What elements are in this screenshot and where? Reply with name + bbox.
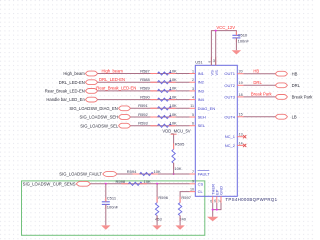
svg-text:C511: C511 xyxy=(107,196,117,201)
capacitor C510 100nF xyxy=(232,32,249,44)
svg-text:14: 14 xyxy=(239,141,243,145)
svg-text:VCC_12V: VCC_12V xyxy=(216,25,235,30)
pin THER bottom xyxy=(209,184,215,203)
op-amp U51 (load switch IC body) xyxy=(195,59,277,202)
svg-text:Handle bar_LED_En: Handle bar_LED_En xyxy=(46,97,85,102)
svg-text:DIAG_EN: DIAG_EN xyxy=(198,106,216,111)
svg-text:Rear_Break_LED-EN: Rear_Break_LED-EN xyxy=(96,86,136,91)
ground below IC xyxy=(207,217,218,221)
svg-text:R593: R593 xyxy=(138,121,148,126)
svg-text:R596: R596 xyxy=(158,195,168,200)
wire High_beam row xyxy=(98,73,190,75)
wire R596 to ground xyxy=(156,216,158,226)
port Handle bar_LED_En xyxy=(46,97,97,102)
port LB xyxy=(275,114,297,119)
wire Handle bar row xyxy=(98,99,190,101)
svg-text:Rear_Break_LED-EN: Rear_Break_LED-EN xyxy=(45,89,85,94)
wire FAULT row xyxy=(117,173,190,175)
wire SEH row xyxy=(130,116,189,118)
svg-text:7: 7 xyxy=(192,170,194,174)
port DRL xyxy=(275,83,300,88)
svg-text:IN2: IN2 xyxy=(198,80,205,85)
resistor R594 xyxy=(127,169,161,176)
svg-text:OUT3: OUT3 xyxy=(224,94,235,99)
wire CS to C511 xyxy=(105,184,107,202)
resistor R598 xyxy=(116,179,152,186)
port SIG_LOADSW_CUR_SENS xyxy=(23,181,91,186)
svg-text:SEH: SEH xyxy=(198,115,206,120)
svg-text:Break Park: Break Park xyxy=(292,95,314,100)
svg-text:18: 18 xyxy=(239,93,243,97)
svg-text:SIG_LOADSW_SEH: SIG_LOADSW_SEH xyxy=(80,115,119,120)
wire R595 to FAULT net xyxy=(173,163,175,174)
resistor R597 240 xyxy=(178,195,191,221)
svg-text:4: 4 xyxy=(192,96,194,100)
svg-text:10K: 10K xyxy=(170,77,177,82)
wire C510 to ground xyxy=(235,38,237,50)
wire EP pin down xyxy=(216,203,218,210)
svg-text:DRL: DRL xyxy=(292,83,301,88)
svg-text:13: 13 xyxy=(239,133,243,137)
wire VCC_12V rail xyxy=(211,31,236,66)
port SIG_LOADSW_SEH xyxy=(80,115,131,120)
svg-text:10K: 10K xyxy=(144,179,151,184)
svg-text:IN3: IN3 xyxy=(198,88,205,93)
svg-text:10K: 10K xyxy=(170,94,177,99)
wire THER pin down xyxy=(212,203,214,217)
port High_beam xyxy=(63,71,97,76)
svg-text:DRL: DRL xyxy=(253,80,262,85)
svg-text:SIG_LOADSW_CUR_SENS: SIG_LOADSW_CUR_SENS xyxy=(23,181,76,186)
svg-text:453: 453 xyxy=(155,216,162,221)
svg-text:100nF: 100nF xyxy=(107,205,119,210)
pin OUT2 xyxy=(224,81,243,88)
wire OUT4 row xyxy=(244,116,276,118)
pin IN3 xyxy=(190,87,205,94)
svg-text:NC_2: NC_2 xyxy=(225,143,236,148)
junction EP net xyxy=(216,209,218,211)
svg-text:10K: 10K xyxy=(170,112,177,117)
resistor R591 xyxy=(138,103,177,110)
svg-text:10K: 10K xyxy=(170,103,177,108)
wire OUT1 row xyxy=(244,73,276,75)
svg-text:High_beam: High_beam xyxy=(102,68,124,73)
pin IN4 xyxy=(190,96,205,103)
port Rear_Break_LED-EN xyxy=(45,89,98,94)
svg-text:GND: GND xyxy=(219,186,224,195)
svg-text:R591: R591 xyxy=(138,103,148,108)
wire SEL row xyxy=(130,125,189,127)
svg-text:IN4: IN4 xyxy=(198,97,205,102)
svg-text:100nF: 100nF xyxy=(238,38,250,43)
wire Rear_Break_LED-EN row xyxy=(98,90,190,92)
pin CS xyxy=(190,180,204,187)
svg-text:R598: R598 xyxy=(116,179,126,184)
svg-text:CS: CS xyxy=(198,181,204,186)
wire DRL_LED-EN row xyxy=(98,81,190,83)
resistor R590 xyxy=(140,94,177,101)
svg-text:DRL_LED-EN: DRL_LED-EN xyxy=(99,77,125,82)
wire GND pin down and across xyxy=(213,203,221,210)
port SIG_LOADSW_SEL xyxy=(80,123,130,128)
resistor R596 453 xyxy=(155,195,169,221)
svg-text:10K: 10K xyxy=(170,68,177,73)
pin OUT3 xyxy=(224,93,243,100)
svg-text:SIG_LOADSW_SEL: SIG_LOADSW_SEL xyxy=(80,123,119,128)
svg-text:R597: R597 xyxy=(181,195,191,200)
svg-text:R587: R587 xyxy=(140,68,150,73)
pin DIAG_EN xyxy=(190,104,216,111)
pin EP bottom xyxy=(213,189,219,203)
resistor R592 xyxy=(138,112,177,119)
pin SEL xyxy=(190,122,206,129)
svg-text:CL: CL xyxy=(198,189,204,194)
resistor R593 xyxy=(138,121,177,128)
pin SEH xyxy=(190,113,206,120)
svg-text:10K: 10K xyxy=(174,166,181,171)
svg-text:DRL_LED-EN: DRL_LED-EN xyxy=(59,80,85,85)
pin IN2 xyxy=(190,78,205,85)
svg-text:R590: R590 xyxy=(140,94,150,99)
svg-text:9: 9 xyxy=(192,180,194,184)
junction CS/R596 xyxy=(156,183,158,185)
port DRL_LED-EN xyxy=(59,80,98,85)
capacitor C511 100nF xyxy=(102,196,119,210)
junction R595/FAULT xyxy=(173,173,175,175)
pin NC_2 with no-connect X xyxy=(225,141,247,148)
svg-text:High_beam: High_beam xyxy=(63,71,85,76)
ground below C511 xyxy=(101,225,110,229)
wire OUT2 row xyxy=(244,84,276,86)
pin OUT4 xyxy=(224,113,243,120)
svg-text:3: 3 xyxy=(192,87,194,91)
svg-text:2: 2 xyxy=(192,78,194,82)
pin IN1 xyxy=(190,69,205,76)
svg-text:VS: VS xyxy=(214,70,219,76)
pin GND bottom xyxy=(217,186,223,203)
svg-text:HB: HB xyxy=(292,71,298,76)
resistor R589 xyxy=(140,86,177,93)
svg-text:TPS4H000BQPWPRQ1: TPS4H000BQPWPRQ1 xyxy=(225,197,277,202)
wire VS pin 2 to rail xyxy=(215,31,217,66)
svg-text:LB: LB xyxy=(292,114,297,119)
svg-text:1: 1 xyxy=(192,69,194,73)
svg-text:U51: U51 xyxy=(195,59,203,64)
resistor R595 pull-up xyxy=(172,141,185,171)
port SIG_LOADSW_FAULT xyxy=(59,172,117,177)
port Break Park xyxy=(275,95,313,100)
junction VCC rail xyxy=(215,30,217,32)
pin CL xyxy=(190,188,204,195)
wire C511 to ground xyxy=(105,204,107,225)
green courtyard box xyxy=(22,181,205,235)
svg-text:SIG_LOADSW_DIAG_EN: SIG_LOADSW_DIAG_EN xyxy=(69,106,117,111)
svg-text:R589: R589 xyxy=(140,86,150,91)
ground below C510 xyxy=(232,50,241,54)
pin VS top right (8) xyxy=(212,57,219,76)
pin NC_1 with no-connect X xyxy=(225,133,247,140)
svg-text:5: 5 xyxy=(192,113,194,117)
svg-text:15: 15 xyxy=(239,113,243,117)
svg-text:R592: R592 xyxy=(138,112,148,117)
power symbol VDD_MCU_5V xyxy=(162,129,190,135)
svg-text:11: 11 xyxy=(190,104,194,108)
svg-text:OUT1: OUT1 xyxy=(224,71,235,76)
svg-text:R594: R594 xyxy=(127,169,137,174)
resistor R587 xyxy=(140,68,177,75)
svg-text:6: 6 xyxy=(192,122,194,126)
svg-text:Break Park: Break Park xyxy=(251,92,273,97)
wire CS to R596 xyxy=(156,184,158,203)
svg-text:FAULT: FAULT xyxy=(198,172,211,177)
resistor R588 xyxy=(140,77,177,84)
svg-text:VDD_MCU_5V: VDD_MCU_5V xyxy=(162,129,190,134)
wire VDD_MCU_5V to R595 xyxy=(173,134,175,149)
wire CL to R597 xyxy=(180,192,189,203)
svg-text:SEL: SEL xyxy=(198,123,206,128)
pin VS top left (12) xyxy=(208,57,215,76)
port SIG_LOADSW_DIAG_EN xyxy=(69,106,130,111)
svg-text:10K: 10K xyxy=(170,121,177,126)
svg-text:IN1: IN1 xyxy=(198,71,205,76)
svg-text:HB: HB xyxy=(253,69,259,74)
svg-text:OUT2: OUT2 xyxy=(224,83,235,88)
svg-text:NC_1: NC_1 xyxy=(225,134,236,139)
wire CS row xyxy=(90,183,189,185)
svg-text:10K: 10K xyxy=(170,86,177,91)
svg-text:20: 20 xyxy=(239,70,243,74)
pin FAULT (active low) xyxy=(190,170,211,177)
wire DIAG_EN row xyxy=(130,107,189,109)
svg-text:19: 19 xyxy=(239,81,243,85)
ground below R597 xyxy=(175,225,184,229)
ground below R596 xyxy=(152,225,161,229)
junction CS/C511 xyxy=(105,183,107,185)
svg-text:R595: R595 xyxy=(175,141,185,146)
pin OUT1 xyxy=(224,70,243,77)
port HB xyxy=(275,71,297,76)
svg-text:SIG_LOADSW_FAULT: SIG_LOADSW_FAULT xyxy=(59,172,102,177)
junction THER net xyxy=(212,209,214,211)
wire OUT3 row xyxy=(244,96,276,98)
svg-text:OUT4: OUT4 xyxy=(224,114,235,119)
svg-text:R588: R588 xyxy=(140,77,150,82)
svg-text:10: 10 xyxy=(190,188,194,192)
wire R597 to ground xyxy=(179,216,181,226)
svg-text:10K: 10K xyxy=(154,169,161,174)
